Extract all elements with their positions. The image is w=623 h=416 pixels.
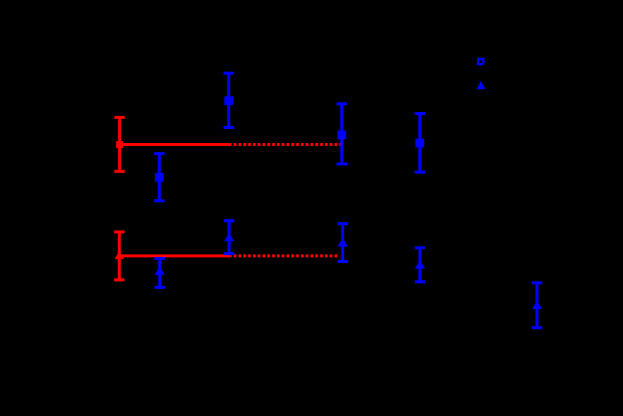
blue triangle point 2: triangle marker [224,233,234,241]
blue triangle point 4: triangle marker [415,260,425,268]
red series B: error bar bottom cap [114,278,124,281]
red series A: error bar bottom cap [114,170,124,173]
blue triangle point 4: top cap [415,246,425,249]
blue triangle point 1: top cap [155,257,165,260]
red series B: horizontal solid line [119,254,231,257]
blue square point 4: top cap [415,112,425,115]
blue triangle point 2: top cap [224,219,234,222]
red series A: horizontal dotted line [234,143,341,146]
blue triangle point 1: bottom cap [155,286,165,289]
red series A: error bar vertical line [118,117,121,171]
blue triangle point 2: bottom cap [224,252,234,255]
blue triangle point 2: error bar vertical line [228,221,231,254]
red series A: square marker [116,141,123,148]
blue square point 4: square marker [415,139,424,148]
blue square point 3: error bar vertical line [340,104,343,164]
blue square point 2: bottom cap [224,126,234,129]
red series A: horizontal solid line [120,143,232,146]
blue square point 1: bottom cap [154,199,164,202]
blue square point 1: top cap [154,152,164,155]
blue square point 3: bottom cap [337,163,347,166]
red series B: error bar top cap [114,230,124,233]
blue triangle point 3: error bar vertical line [341,224,344,262]
red series A: error bar top cap [114,116,124,119]
blue triangle point 1: triangle marker [155,267,165,275]
blue triangle point 3: bottom cap [338,260,348,263]
blue square point 2: error bar vertical line [227,73,230,127]
blue square point 3: square marker [337,131,346,140]
blue triangle point 4: error bar vertical line [418,248,421,282]
blue triangle point 4: bottom cap [415,280,425,283]
blue triangle point 3: top cap [338,222,348,225]
blue square point 4: bottom cap [415,171,425,174]
blue square point 1: square marker [155,173,164,182]
blue triangle point 1: error bar vertical line [158,259,161,288]
blue triangle point 5: error bar vertical line [536,283,539,328]
blue triangle point 5: top cap [532,281,542,284]
blue square point 2: square marker [224,96,233,105]
red series B: triangle marker [115,251,124,259]
blue triangle point 5: triangle marker [532,301,542,309]
legend: open blue square marker [478,59,483,64]
blue triangle point 5: bottom cap [532,326,542,329]
blue square point 4: error bar vertical line [418,114,421,173]
blue square point 3: top cap [337,102,347,105]
blue triangle point 3: triangle marker [338,238,348,246]
red series B: horizontal dotted line [234,254,340,257]
legend: filled blue triangle marker [477,81,486,89]
legend: notch over square corner [483,64,485,66]
red series B: error bar vertical line [118,232,121,280]
blue square point 2: top cap [224,72,234,75]
blue square point 1: error bar vertical line [158,154,161,201]
